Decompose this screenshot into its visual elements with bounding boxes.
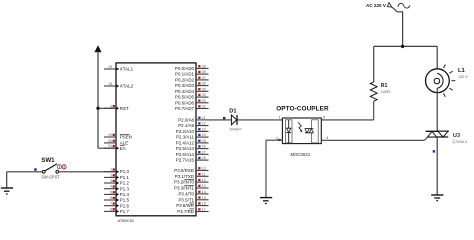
switch SW1 bbox=[42, 164, 58, 173]
svg-text:P3.1/TXD: P3.1/TXD bbox=[175, 174, 194, 179]
svg-text:XTAL1: XTAL1 bbox=[120, 67, 134, 72]
svg-text:P1.5: P1.5 bbox=[120, 198, 130, 203]
wire ground to SW1 bbox=[7, 171, 43, 173]
U1 pin 37 P0.2/AD2 bbox=[175, 76, 209, 83]
U1 pin 16 P3.6/WR bbox=[176, 202, 208, 209]
U1 pin 33 P0.6/AD6 bbox=[175, 99, 209, 106]
svg-text:18: 18 bbox=[108, 82, 112, 86]
svg-text:P0.6/AD6: P0.6/AD6 bbox=[175, 100, 195, 105]
svg-text:14: 14 bbox=[202, 190, 206, 194]
svg-text:16: 16 bbox=[202, 202, 206, 206]
wire lamp to triac bbox=[436, 88, 438, 131]
svg-text:P1.2: P1.2 bbox=[120, 181, 130, 186]
svg-text:P0.2/AD2: P0.2/AD2 bbox=[175, 77, 195, 82]
svg-text:2: 2 bbox=[110, 173, 112, 177]
U1 pin 10 P3.0/RXD bbox=[174, 166, 208, 173]
junction AC node bbox=[401, 45, 404, 48]
U1 pin 21 P2.0/A8 bbox=[178, 116, 208, 123]
U1 pin 28 P2.7/A15 bbox=[176, 156, 209, 163]
svg-text:23: 23 bbox=[202, 127, 206, 131]
svg-text:4: 4 bbox=[110, 185, 112, 189]
svg-text:29: 29 bbox=[108, 133, 112, 137]
svg-text:XTAL2: XTAL2 bbox=[120, 84, 134, 89]
U1 pin 34 P0.5/AD5 bbox=[175, 93, 209, 100]
svg-text:P0.7/AD7: P0.7/AD7 bbox=[175, 106, 195, 111]
U1 pin 6 P1.5 bbox=[104, 196, 129, 203]
svg-text:22: 22 bbox=[202, 122, 206, 126]
svg-text:6: 6 bbox=[323, 116, 325, 120]
U1 pin 11 P3.1/TXD bbox=[175, 172, 209, 179]
U1 pin 39 P0.0/AD0 bbox=[175, 64, 209, 71]
svg-text:P3.5/T1: P3.5/T1 bbox=[178, 197, 194, 202]
svg-text:10: 10 bbox=[202, 166, 206, 170]
svg-text:AC 220 V: AC 220 V bbox=[366, 3, 387, 8]
node indicator square (SW1 net) bbox=[34, 168, 37, 171]
svg-text:27: 27 bbox=[202, 150, 206, 154]
svg-text:EA: EA bbox=[120, 146, 126, 151]
U1 pin 36 P0.3/AD3 bbox=[175, 82, 209, 89]
svg-text:D1: D1 bbox=[229, 108, 236, 114]
U1 pin 29 PSEN bbox=[104, 133, 132, 140]
svg-text:30: 30 bbox=[108, 139, 112, 143]
svg-text:P3.6/WR: P3.6/WR bbox=[176, 203, 194, 208]
svg-text:RST: RST bbox=[120, 106, 129, 111]
svg-text:U3: U3 bbox=[453, 133, 461, 139]
svg-text:P1.1: P1.1 bbox=[120, 175, 130, 180]
wire U1 P2.0 to D1 to opto pin 1 bbox=[209, 119, 283, 121]
svg-text:P2.3/A11: P2.3/A11 bbox=[176, 135, 194, 140]
U1 pin 22 P2.1/A9 bbox=[178, 122, 208, 129]
svg-text:PSEN: PSEN bbox=[120, 135, 132, 140]
opto inner right column bbox=[312, 120, 319, 143]
opto pin 2 node square bbox=[278, 139, 280, 141]
U1 pin 17 P3.7/RD bbox=[177, 208, 208, 215]
svg-text:SW-SPST: SW-SPST bbox=[41, 174, 60, 179]
svg-text:P0.0/AD0: P0.0/AD0 bbox=[175, 66, 195, 71]
U1 pin 38 P0.1/AD1 bbox=[175, 70, 209, 77]
svg-text:9: 9 bbox=[110, 104, 112, 108]
svg-text:7: 7 bbox=[110, 202, 112, 206]
svg-text:P2.6/A14: P2.6/A14 bbox=[176, 152, 195, 157]
svg-text:P1.0: P1.0 bbox=[120, 169, 130, 174]
svg-text:1: 1 bbox=[279, 116, 281, 120]
AC input terminal symbol bbox=[387, 3, 392, 8]
diode D1 symbol bbox=[231, 115, 237, 125]
U1 pin 9 RST bbox=[104, 104, 129, 111]
triac U3 bbox=[424, 131, 448, 140]
svg-text:P2.4/A12: P2.4/A12 bbox=[176, 140, 195, 145]
U1 pin 14 P3.4/T0 bbox=[178, 190, 208, 197]
wire AC node to R1 bbox=[373, 46, 375, 82]
svg-text:100R: 100R bbox=[381, 89, 390, 94]
svg-text:Q7006L5: Q7006L5 bbox=[452, 140, 467, 144]
wire R1 to opto pin 6 bbox=[321, 101, 373, 120]
U1 pin 25 P2.4/A12 bbox=[176, 139, 209, 146]
svg-text:P2.5/A13: P2.5/A13 bbox=[176, 146, 195, 151]
svg-text:P0.5/AD5: P0.5/AD5 bbox=[175, 95, 195, 100]
U1 pin 7 P1.6 bbox=[104, 202, 129, 209]
opto inner left column bbox=[285, 120, 292, 143]
ground (triac) bbox=[431, 195, 443, 201]
ground (left of SW1) bbox=[1, 172, 13, 194]
svg-text:21: 21 bbox=[202, 116, 206, 120]
svg-text:12: 12 bbox=[202, 178, 206, 182]
svg-text:19: 19 bbox=[108, 65, 112, 69]
svg-text:13: 13 bbox=[202, 184, 206, 188]
svg-text:5: 5 bbox=[110, 190, 112, 194]
U1 pin 15 P3.5/T1 bbox=[178, 196, 208, 203]
svg-text:P3.7/RD: P3.7/RD bbox=[177, 209, 194, 214]
svg-text:24: 24 bbox=[202, 133, 206, 137]
svg-text:25: 25 bbox=[202, 139, 206, 143]
svg-text:26: 26 bbox=[202, 145, 206, 149]
opto output triac bbox=[305, 129, 314, 133]
svg-text:1N4007: 1N4007 bbox=[229, 128, 241, 132]
U1 pin 18 XTAL2 bbox=[104, 82, 134, 89]
U1 pin 8 P1.7 bbox=[104, 207, 129, 214]
wire power rail vertical bbox=[97, 52, 99, 148]
U1 pin 26 P2.5/A13 bbox=[176, 145, 209, 152]
U1 pin 19 XTAL1 bbox=[104, 65, 134, 72]
svg-text:P2.0/A8: P2.0/A8 bbox=[178, 118, 194, 123]
node indicator square (triac MT1) bbox=[433, 150, 435, 152]
svg-text:11: 11 bbox=[202, 172, 206, 176]
wire power to RST bbox=[98, 107, 116, 109]
svg-text:6: 6 bbox=[110, 196, 112, 200]
svg-text:ALE: ALE bbox=[120, 141, 128, 146]
junction at RST bbox=[96, 107, 99, 110]
wire opto pin 2 to ground bbox=[266, 140, 282, 197]
svg-text:P2.1/A9: P2.1/A9 bbox=[178, 123, 194, 128]
U1 pin 3 P1.2 bbox=[104, 179, 129, 186]
svg-text:P3.0/RXD: P3.0/RXD bbox=[174, 168, 194, 173]
wire AC node to lamp L1 bbox=[436, 46, 438, 73]
svg-text:AT89C51: AT89C51 bbox=[118, 218, 135, 223]
U1 pin 23 P2.2/A10 bbox=[176, 127, 209, 134]
svg-text:P0.1/AD1: P0.1/AD1 bbox=[175, 72, 195, 77]
svg-text:P1.3: P1.3 bbox=[120, 186, 130, 191]
wire opto pin 4 to triac gate bbox=[321, 139, 424, 141]
svg-text:L1: L1 bbox=[458, 68, 466, 74]
node indicator square (P2.0 net) bbox=[223, 117, 226, 120]
svg-text:34: 34 bbox=[202, 93, 206, 97]
lamp L1 bbox=[426, 65, 456, 97]
svg-text:4: 4 bbox=[326, 136, 328, 140]
svg-text:17: 17 bbox=[202, 208, 206, 212]
svg-text:P3.4/T0: P3.4/T0 bbox=[178, 191, 194, 196]
svg-text:39: 39 bbox=[202, 64, 206, 68]
SW1 actuator toggle circles bbox=[57, 165, 66, 169]
wire AC terminal down bbox=[392, 7, 403, 46]
svg-text:P0.4/AD4: P0.4/AD4 bbox=[175, 89, 195, 94]
ground (opto pin 2) bbox=[260, 198, 272, 204]
opto LED bbox=[286, 120, 291, 143]
U1 pin 4 P1.3 bbox=[104, 185, 129, 192]
svg-text:P1.7: P1.7 bbox=[120, 209, 130, 214]
power symbol (VCC arrow) bbox=[94, 45, 101, 52]
svg-text:P2.2/A10: P2.2/A10 bbox=[176, 129, 195, 134]
svg-text:P3.2/INT0: P3.2/INT0 bbox=[174, 180, 195, 185]
svg-text:P2.7/A15: P2.7/A15 bbox=[176, 158, 195, 163]
svg-text:32: 32 bbox=[202, 105, 206, 109]
U1 pin 13 P3.3/INT1 bbox=[174, 184, 208, 191]
opto light arrow bbox=[298, 122, 302, 131]
AC sine symbol bbox=[398, 3, 410, 8]
microcontroller U1 AT89C51 body bbox=[116, 63, 196, 216]
svg-text:28: 28 bbox=[202, 156, 206, 160]
U1 pin 5 P1.4 bbox=[104, 190, 129, 197]
svg-text:36: 36 bbox=[202, 82, 206, 86]
opto-coupler U2 MOC3021 body bbox=[282, 118, 321, 144]
svg-text:38: 38 bbox=[202, 70, 206, 74]
svg-text:1: 1 bbox=[110, 168, 112, 172]
svg-text:P3.3/INT1: P3.3/INT1 bbox=[174, 186, 195, 191]
svg-text:33: 33 bbox=[202, 99, 206, 103]
svg-text:120 V: 120 V bbox=[458, 75, 468, 79]
wire triac to ground bbox=[436, 137, 438, 195]
wire power to EA pin 31 bbox=[98, 147, 116, 149]
U1 pin 2 P1.1 bbox=[104, 173, 129, 180]
svg-text:OPTO-COUPLER: OPTO-COUPLER bbox=[276, 105, 329, 112]
svg-text:31: 31 bbox=[108, 144, 112, 148]
U1 pin 32 P0.7/AD7 bbox=[175, 105, 209, 112]
svg-text:MOC3021: MOC3021 bbox=[291, 152, 311, 157]
U1 pin 24 P2.3/A11 bbox=[176, 133, 208, 140]
wire AC distribution horizontal bbox=[374, 45, 438, 47]
svg-text:15: 15 bbox=[202, 196, 206, 200]
U1 pin 27 P2.6/A14 bbox=[176, 150, 209, 157]
svg-text:37: 37 bbox=[202, 76, 206, 80]
wire SW1 to U1 P1.0 bbox=[59, 171, 116, 173]
svg-text:35: 35 bbox=[202, 87, 206, 91]
U1 pin 31 EA bbox=[104, 144, 126, 151]
svg-text:8: 8 bbox=[110, 207, 112, 211]
U1 pin 12 P3.2/INT0 bbox=[174, 178, 208, 185]
U1 pin 30 ALE bbox=[104, 139, 128, 146]
U1 pin 35 P0.4/AD4 bbox=[175, 87, 209, 94]
svg-text:P1.6: P1.6 bbox=[120, 203, 130, 208]
svg-text:3: 3 bbox=[110, 179, 112, 183]
resistor R1 bbox=[370, 82, 377, 101]
svg-text:SW1: SW1 bbox=[41, 157, 55, 164]
U1 pin 1 P1.0 bbox=[104, 168, 129, 175]
svg-text:P1.4: P1.4 bbox=[120, 192, 130, 197]
svg-text:P0.3/AD3: P0.3/AD3 bbox=[175, 83, 195, 88]
